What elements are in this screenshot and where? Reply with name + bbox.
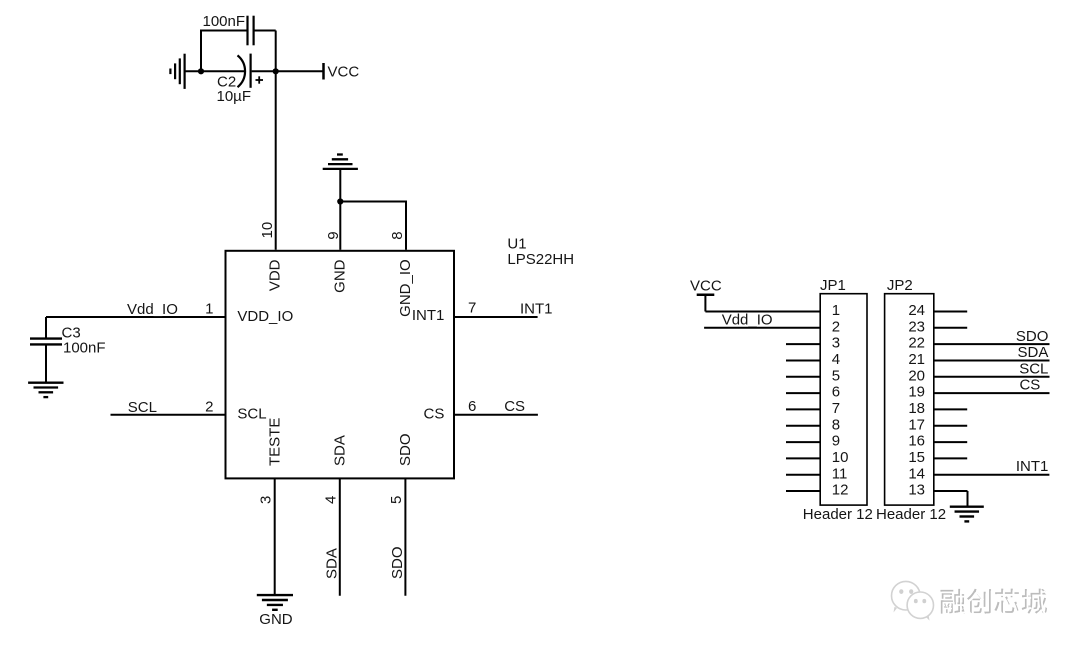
svg-text:20: 20	[908, 367, 925, 384]
svg-text:2: 2	[205, 398, 213, 415]
svg-text:9: 9	[832, 433, 840, 450]
svg-text:3: 3	[257, 496, 274, 504]
svg-text:Header 12: Header 12	[876, 506, 946, 523]
wire up from junction to 100nF	[200, 31, 202, 73]
svg-text:100nF: 100nF	[203, 13, 246, 30]
capacitor C3 plates	[30, 339, 62, 345]
svg-text:INT1: INT1	[1016, 458, 1049, 475]
svg-text:INT1: INT1	[412, 307, 445, 324]
svg-text:CS: CS	[1019, 377, 1040, 394]
svg-text:SDO: SDO	[389, 546, 406, 579]
capacitor C2 straight plate	[250, 54, 252, 88]
ground power symbol left of C2 (rotated, pointing left)	[170, 54, 184, 89]
wire JP2 pin 24 stub	[934, 311, 967, 313]
wire pin 1 Vdd_IO	[46, 316, 226, 318]
wire VCC node down to pin 10	[275, 71, 277, 250]
power VCC terminal at JP1	[697, 295, 715, 312]
header JP2 box	[885, 294, 934, 505]
wire JP1 pin 7 stub	[786, 408, 820, 410]
svg-text:JP1: JP1	[820, 277, 846, 294]
wire JP2 pin 22	[934, 343, 1050, 345]
svg-text:100nF: 100nF	[63, 340, 106, 357]
ground below pin 3	[257, 595, 293, 610]
svg-text:7: 7	[468, 300, 476, 317]
svg-text:10: 10	[259, 222, 276, 239]
wire JP1 pin 1	[705, 311, 820, 313]
svg-text:11: 11	[832, 465, 848, 482]
wire JP1 pin 9 stub	[786, 441, 820, 443]
wire C3 bottom lead	[45, 344, 47, 382]
wire JP1 pin 10 stub	[786, 457, 820, 459]
svg-text:GND: GND	[331, 259, 348, 293]
wire junction to pin 8 corner	[340, 201, 406, 203]
svg-text:Vdd_IO: Vdd_IO	[127, 301, 178, 318]
svg-text:SDA: SDA	[331, 435, 348, 466]
svg-text:SDO: SDO	[397, 433, 414, 466]
svg-text:10: 10	[832, 449, 849, 466]
wire pin 4 SDA	[339, 478, 341, 595]
svg-text:CS: CS	[504, 398, 525, 415]
wire pin 5 SDO	[404, 478, 406, 595]
power VCC terminal bar	[322, 63, 325, 80]
svg-text:9: 9	[325, 231, 342, 239]
svg-text:VDD: VDD	[267, 259, 284, 291]
svg-text:19: 19	[908, 384, 925, 401]
svg-text:JP2: JP2	[887, 277, 913, 294]
wire JP2 pin 21	[934, 360, 1050, 362]
wire JP1 pin 4 stub	[786, 360, 820, 362]
wire pin 8	[405, 201, 407, 250]
wire C3 top lead	[45, 317, 47, 338]
wire JP1 pin 2	[704, 327, 820, 329]
svg-text:SDA: SDA	[323, 548, 340, 579]
capacitor C2 curved plate	[238, 55, 246, 87]
svg-text:6: 6	[468, 398, 476, 415]
wire pin 2 SCL	[111, 414, 226, 416]
svg-text:17: 17	[908, 416, 925, 433]
svg-text:TESTE: TESTE	[267, 418, 284, 466]
wire ground stem down to junction	[339, 169, 341, 202]
wire JP1 pin 11 stub	[786, 474, 820, 476]
svg-text:VDD_IO: VDD_IO	[237, 308, 293, 325]
wire to capacitor C1 left plate	[200, 30, 248, 32]
wire pin 6 CS	[454, 414, 538, 416]
wire JP2 pin 14 INT1	[934, 474, 1050, 476]
capacitor C1 100nF plates	[248, 16, 254, 46]
svg-text:INT1: INT1	[520, 300, 553, 317]
svg-text:SCL: SCL	[128, 399, 157, 416]
svg-text:2: 2	[832, 318, 840, 335]
svg-text:23: 23	[908, 318, 925, 335]
wire ground to C2 left plate	[185, 70, 246, 72]
wire JP1 pin 3 stub	[786, 343, 820, 345]
svg-text:1: 1	[205, 300, 213, 317]
wire JP1 pin 5 stub	[786, 376, 820, 378]
header JP1 box	[820, 294, 867, 505]
svg-text:1: 1	[832, 302, 840, 319]
wire C1 right plate to corner	[254, 30, 276, 32]
wire JP2 pin 15 stub	[934, 457, 967, 459]
svg-text:Vdd_IO: Vdd_IO	[722, 312, 773, 329]
svg-text:7: 7	[832, 400, 840, 417]
svg-text:8: 8	[389, 231, 406, 239]
junction node GND net	[337, 198, 343, 204]
svg-text:4: 4	[322, 496, 339, 504]
svg-text:5: 5	[832, 367, 840, 384]
wire JP2 pin 18 stub	[934, 408, 967, 410]
svg-text:SCL: SCL	[237, 405, 266, 422]
svg-text:10µF: 10µF	[217, 88, 252, 105]
svg-text:13: 13	[908, 482, 925, 499]
ground below C3	[28, 383, 63, 397]
svg-text:4: 4	[832, 351, 840, 368]
svg-text:5: 5	[388, 496, 405, 504]
wire pin 7 INT1	[454, 316, 538, 318]
junction node VCC net	[273, 68, 279, 74]
svg-text:18: 18	[908, 400, 925, 417]
svg-text:SCL: SCL	[1019, 360, 1048, 377]
wire JP2 pin 16 stub	[934, 441, 967, 443]
watermark text	[940, 589, 1048, 616]
svg-text:SDA: SDA	[1018, 344, 1049, 361]
wire corner down to VCC node	[275, 31, 277, 72]
junction node at C2 left	[198, 68, 204, 74]
svg-text:LPS22HH: LPS22HH	[507, 251, 574, 268]
watermark logo icon	[892, 581, 934, 620]
svg-text:VCC: VCC	[328, 63, 360, 80]
svg-text:CS: CS	[424, 405, 445, 422]
svg-text:24: 24	[908, 302, 925, 319]
wire JP1 pin 6 stub	[786, 392, 820, 394]
svg-text:16: 16	[908, 433, 925, 450]
wire JP1 pin 8 stub	[786, 425, 820, 427]
wire JP1 pin 12 stub	[786, 490, 820, 492]
wire JP2 pin 17 stub	[934, 425, 967, 427]
svg-text:SDO: SDO	[1016, 328, 1049, 345]
ground at JP2 pin 13	[950, 507, 984, 522]
svg-text:22: 22	[908, 335, 925, 352]
wire C2 right plate to VCC bar	[252, 70, 323, 72]
svg-text:8: 8	[832, 416, 840, 433]
svg-text:15: 15	[908, 449, 925, 466]
svg-text:GND: GND	[259, 611, 293, 628]
ground symbol above U1 (pointing up)	[323, 155, 358, 169]
wire pin 9	[339, 202, 341, 250]
svg-text:3: 3	[832, 335, 840, 352]
wire JP2 pin 13 to ground	[934, 491, 968, 506]
svg-text:6: 6	[832, 384, 840, 401]
svg-text:VCC: VCC	[690, 277, 722, 294]
wire JP2 pin 23 stub	[934, 327, 967, 329]
svg-text:21: 21	[908, 351, 925, 368]
svg-text:Header 12: Header 12	[803, 506, 873, 523]
wire pin 3 TESTE to ground	[274, 478, 276, 595]
wire JP2 pin 20	[934, 376, 1050, 378]
svg-text:14: 14	[908, 465, 925, 482]
IC U1 body rectangle	[226, 251, 455, 479]
plus sign of C2	[256, 76, 264, 83]
svg-text:12: 12	[832, 482, 849, 499]
wire JP2 pin 19	[934, 392, 1050, 394]
